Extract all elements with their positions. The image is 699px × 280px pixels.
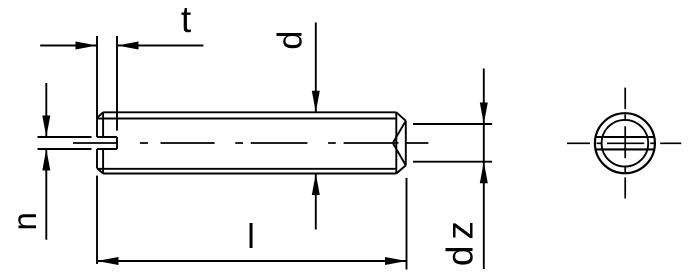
left chamfer bottom <box>97 168 103 173</box>
screw body outline: top edge <box>103 111 396 113</box>
svg-text:t: t <box>181 0 192 40</box>
end view slot upper chord <box>596 136 655 138</box>
right face edge <box>405 121 407 166</box>
screw left face lower <box>96 149 98 168</box>
d arrow lower <box>312 174 320 196</box>
end view slot lower chord <box>596 148 654 150</box>
l dimension line <box>97 260 407 262</box>
dz extension line lower <box>413 161 492 163</box>
slot lower edge <box>97 148 117 150</box>
n extension line lower <box>38 148 92 150</box>
l extension line right <box>406 178 408 270</box>
left chamfer top <box>97 112 103 118</box>
l arrow left <box>97 257 119 265</box>
l arrow right <box>385 257 407 265</box>
n arrow upper <box>42 116 50 138</box>
end view inner circle <box>602 120 649 167</box>
end view vertical centerline <box>624 88 626 199</box>
screw body outline: bottom edge <box>103 173 396 175</box>
cone diagonal lower <box>393 143 406 165</box>
right chamfer bottom <box>396 165 406 173</box>
t arrow left <box>76 42 98 50</box>
dz dimension line <box>483 69 485 270</box>
t arrow right <box>117 42 139 50</box>
end view outer circle <box>595 113 655 173</box>
slot upper edge <box>97 136 117 138</box>
n dimension line lower <box>45 149 47 240</box>
d dimension line lower <box>315 174 317 230</box>
dz arrow upper <box>480 103 488 125</box>
svg-text:dz: dz <box>439 215 480 266</box>
dz extension line upper <box>413 123 492 125</box>
d arrow upper <box>312 91 320 113</box>
svg-text:n: n <box>6 212 43 230</box>
left transition line lower <box>102 149 104 174</box>
l extension line left <box>96 176 98 264</box>
thread minor line bottom <box>98 168 397 170</box>
svg-text:d: d <box>271 31 309 50</box>
screw left face upper <box>96 118 98 137</box>
slot bottom line <box>116 137 118 149</box>
n extension line upper <box>38 136 92 138</box>
t dimension line left part <box>40 45 97 47</box>
d dimension line upper <box>315 23 317 113</box>
n arrow lower <box>42 149 50 171</box>
t extension line left <box>96 36 98 118</box>
right transition line <box>395 112 397 173</box>
thread minor line top <box>98 118 397 120</box>
centerline side view <box>73 142 428 144</box>
t dimension line right part <box>117 45 203 47</box>
end view horizontal centerline <box>567 142 681 144</box>
t extension line right <box>116 36 118 131</box>
right chamfer top <box>396 112 406 121</box>
n dimension line upper <box>45 83 47 137</box>
cone diagonal upper <box>393 121 406 143</box>
svg-text:l: l <box>247 218 255 256</box>
dz arrow lower <box>480 162 488 184</box>
left transition line upper <box>102 112 104 137</box>
